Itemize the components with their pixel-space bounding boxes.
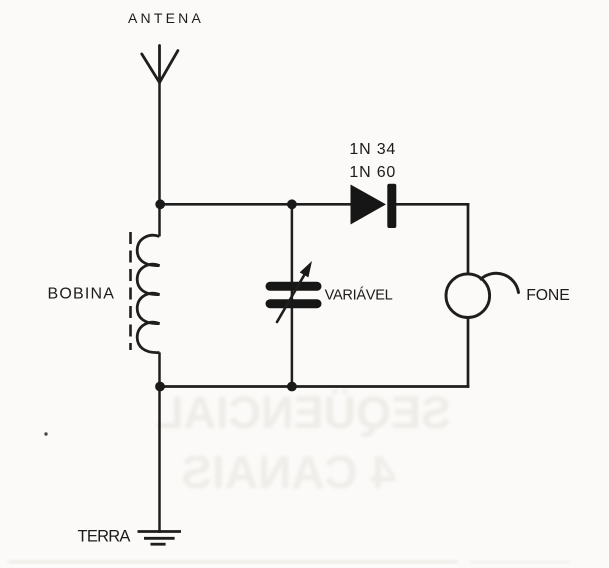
ink speck bbox=[44, 432, 47, 435]
earphone P1 circle bbox=[446, 274, 490, 318]
wire diode to right corner bbox=[395, 203, 469, 206]
svg-text:BOBINA: BOBINA bbox=[48, 286, 116, 303]
node A junction dot bbox=[155, 199, 165, 209]
wire antenna lead bbox=[158, 83, 161, 237]
diode D1 triangle bbox=[351, 185, 387, 225]
coil L1 (4 turns) bbox=[137, 235, 159, 352]
node D junction dot bbox=[287, 382, 297, 392]
ground bar 3 bbox=[151, 543, 166, 546]
capacitor CV arrow head bbox=[300, 261, 312, 277]
svg-text:4 CANAIS: 4 CANAIS bbox=[181, 446, 396, 498]
coil core dashed line bbox=[129, 232, 132, 350]
wire right vertical upper bbox=[467, 203, 470, 275]
ghost bleed-through text SEQUENCIAL (mirrored) bbox=[156, 387, 451, 498]
wire top horizontal (node A to diode) bbox=[160, 203, 352, 206]
diode D1 cathode bar bbox=[387, 184, 396, 228]
svg-text:SEQÜENCIAL: SEQÜENCIAL bbox=[156, 387, 451, 438]
earphone P1 cord hook bbox=[481, 273, 519, 292]
svg-text:VARIÁVEL: VARIÁVEL bbox=[325, 286, 393, 303]
svg-text:1N 60: 1N 60 bbox=[349, 164, 396, 181]
svg-text:1N 34: 1N 34 bbox=[349, 141, 396, 158]
ground bar 2 bbox=[144, 537, 175, 540]
antenna AE1 bbox=[142, 46, 178, 83]
node B junction dot bbox=[287, 199, 297, 209]
svg-text:FONE: FONE bbox=[526, 287, 569, 304]
faint bottom scan noise bbox=[8, 560, 570, 564]
wire bottom horizontal bbox=[160, 385, 470, 388]
node C junction dot bbox=[155, 382, 165, 392]
wire coil bottom to ground bbox=[158, 352, 161, 533]
wire right vertical lower bbox=[467, 317, 470, 388]
wire capacitor branch bbox=[291, 204, 294, 386]
ground bar 1 bbox=[138, 530, 182, 533]
capacitor CV bottom plate bbox=[270, 299, 317, 308]
capacitor CV arrow shaft bbox=[277, 272, 306, 322]
svg-text:TERRA: TERRA bbox=[78, 527, 131, 545]
svg-text:ANTENA: ANTENA bbox=[128, 10, 204, 26]
capacitor CV top plate bbox=[270, 282, 317, 291]
